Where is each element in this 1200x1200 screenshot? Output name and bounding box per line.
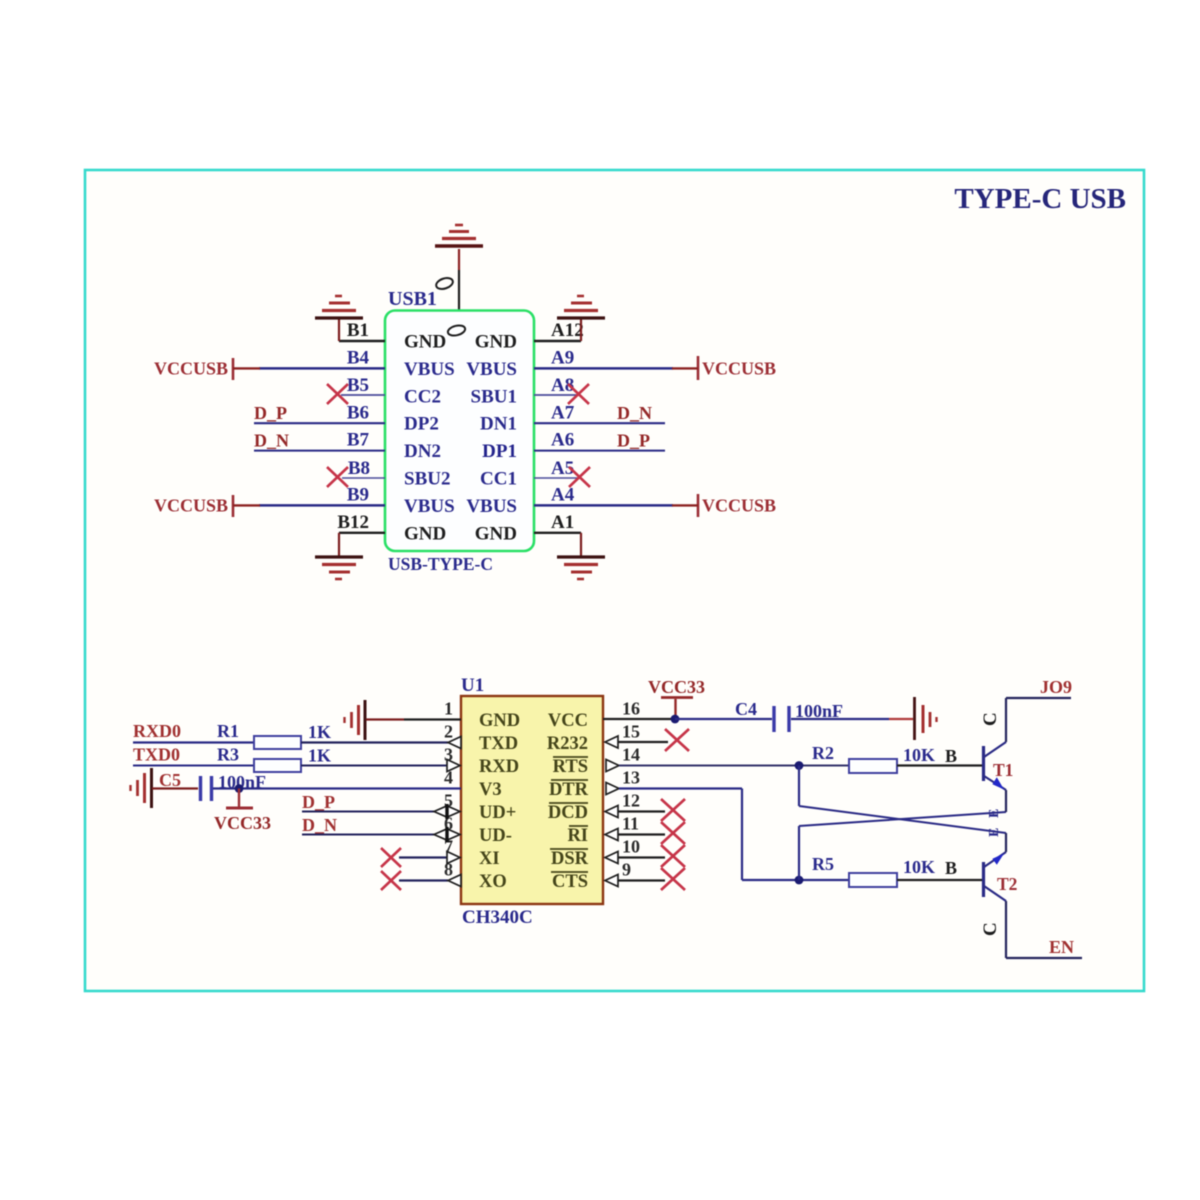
- svg-text:V3: V3: [479, 780, 502, 800]
- pin 3 arrow (input): [447, 760, 460, 772]
- wire pin B1 (GND): [339, 340, 385, 342]
- no-connect X (B5): [327, 384, 348, 404]
- ground (top, above USB1): [435, 225, 483, 310]
- svg-text:VBUS: VBUS: [404, 496, 455, 517]
- pin number A12: [551, 320, 584, 341]
- pin number B1: [347, 320, 369, 341]
- svg-text:TYPE-C USB: TYPE-C USB: [954, 183, 1126, 215]
- net label RXD0: [133, 721, 181, 741]
- wire ground to C5: [152, 787, 198, 789]
- wire TXD0 to R3: [133, 765, 254, 767]
- pin 2 arrow (output): [448, 737, 461, 749]
- svg-text:E: E: [987, 828, 1002, 837]
- svg-text:TXD: TXD: [479, 734, 518, 754]
- no-connect X (pin 10): [661, 845, 685, 867]
- power port VCCUSB (left lower): [154, 495, 260, 517]
- svg-text:GND: GND: [404, 523, 446, 544]
- svg-text:D_P: D_P: [254, 403, 287, 423]
- svg-text:DP1: DP1: [482, 441, 517, 462]
- pin number A7: [551, 402, 575, 423]
- pin number B9: [347, 484, 369, 505]
- wire R1 to pin 2: [301, 741, 448, 743]
- wire pin A1 (GND): [534, 532, 581, 534]
- wire pin B4 (VBUS): [259, 367, 385, 370]
- svg-text:VCCUSB: VCCUSB: [702, 496, 776, 516]
- svg-text:XO: XO: [479, 872, 507, 892]
- svg-text:VBUS: VBUS: [466, 359, 517, 380]
- wire junction to C4: [675, 718, 772, 720]
- no-connect X (pin 12): [661, 799, 685, 821]
- svg-text:14: 14: [622, 745, 640, 765]
- IC U1 right pin numbers 16-9: [622, 699, 640, 880]
- svg-text:A7: A7: [551, 402, 575, 423]
- pin number B12: [337, 512, 369, 533]
- ground (pin B12): [315, 533, 363, 579]
- wire pin B8 stub (SBU2, no connect): [342, 477, 385, 479]
- wire D_P to pin 5 with net label: [302, 792, 447, 812]
- svg-text:RXD0: RXD0: [133, 721, 181, 741]
- svg-text:B: B: [945, 746, 957, 766]
- pin 9 arrow (input): [605, 875, 618, 887]
- svg-text:VBUS: VBUS: [404, 359, 455, 380]
- svg-text:USB-TYPE-C: USB-TYPE-C: [388, 554, 493, 574]
- svg-text:R1: R1: [217, 721, 239, 741]
- svg-text:9: 9: [622, 860, 631, 880]
- svg-text:13: 13: [622, 768, 640, 788]
- svg-text:A4: A4: [551, 484, 575, 505]
- svg-text:B8: B8: [348, 458, 370, 479]
- power port VCC33 (left): [214, 789, 271, 834]
- svg-text:B5: B5: [347, 375, 369, 396]
- no-connect X (pin 7): [381, 848, 401, 867]
- IC U1 left pin numbers 1-8: [444, 699, 453, 880]
- svg-text:A9: A9: [551, 348, 574, 369]
- svg-text:VCCUSB: VCCUSB: [702, 359, 776, 379]
- wire pin B6 (DP2) with net label D_P: [254, 403, 385, 423]
- svg-text:TXD0: TXD0: [133, 745, 180, 765]
- wire pin 8 XO stub: [399, 879, 448, 881]
- wire pin A4 (VBUS): [534, 504, 673, 507]
- pin number B8: [348, 458, 370, 479]
- svg-text:CTS: CTS: [552, 872, 588, 892]
- pin 6 arrow (bidirectional): [434, 827, 460, 842]
- junction node (C5 / VCC33 / V3): [235, 784, 244, 793]
- shell pin circle (top): [435, 276, 454, 291]
- no-connect X (B8): [327, 467, 348, 487]
- wire crossover DTR to T1 emitter: [799, 812, 1006, 880]
- pin 14 arrow (output): [606, 760, 619, 772]
- svg-text:SBU1: SBU1: [471, 386, 517, 407]
- resistor R3: [217, 745, 331, 773]
- svg-text:DCD: DCD: [548, 803, 588, 823]
- wire pin 15 stub: [618, 741, 668, 743]
- pin number B5: [347, 375, 369, 396]
- svg-text:A6: A6: [551, 430, 574, 451]
- pin 15 arrow (input): [605, 736, 618, 748]
- svg-text:15: 15: [622, 722, 640, 742]
- svg-text:1K: 1K: [308, 722, 331, 742]
- wire pin A6 (DP1) with net label D_P: [534, 430, 665, 450]
- svg-text:B6: B6: [347, 402, 369, 423]
- svg-text:B7: B7: [347, 430, 370, 451]
- svg-text:VCC33: VCC33: [214, 813, 271, 833]
- svg-text:UD+: UD+: [479, 803, 516, 823]
- junction node (DTR / crossover): [795, 876, 804, 885]
- capacitor C4: [735, 699, 843, 732]
- svg-text:CC1: CC1: [480, 469, 517, 490]
- svg-text:B: B: [945, 858, 957, 878]
- no-connect X (pin 11): [661, 822, 685, 844]
- wire pin A5 stub (CC1, no connect): [534, 477, 578, 479]
- wire crossover RTS to T2 emitter: [799, 766, 1006, 834]
- svg-text:D_P: D_P: [617, 430, 650, 450]
- svg-text:D_N: D_N: [254, 430, 289, 450]
- pin 8 arrow (output): [448, 875, 461, 887]
- wire / net label JO9: [1006, 677, 1072, 698]
- svg-text:B9: B9: [347, 484, 369, 505]
- power port VCC33 (right): [648, 677, 705, 717]
- wire pin 16 VCC: [603, 718, 675, 720]
- svg-text:A1: A1: [551, 512, 574, 533]
- pin label C (T1 collector, rotated): [980, 712, 1001, 726]
- transistor T1 (NPN): [984, 698, 1014, 812]
- ground (pin A12, inverted): [557, 296, 605, 341]
- pin label E (T1 emitter, rotated): [987, 809, 1002, 818]
- no-connect X (pin 8): [381, 871, 401, 890]
- pin 12 arrow (input): [605, 806, 618, 818]
- resistor R5: [812, 854, 957, 887]
- svg-text:D_N: D_N: [617, 403, 652, 423]
- svg-text:10K: 10K: [903, 745, 935, 765]
- pin number A1: [551, 512, 574, 533]
- svg-text:R2: R2: [812, 743, 834, 763]
- svg-text:C: C: [980, 712, 1001, 726]
- pin number A6: [551, 430, 574, 451]
- svg-text:RTS: RTS: [553, 757, 588, 777]
- svg-text:VCCUSB: VCCUSB: [154, 496, 228, 516]
- pin names left column: [404, 332, 455, 545]
- pin 7 arrow (input): [447, 852, 460, 864]
- wire pin 13 DTR to R5: [619, 789, 849, 881]
- svg-text:1K: 1K: [308, 746, 331, 766]
- no-connect X (A8): [568, 384, 589, 404]
- IC U1 right pin names: [547, 711, 589, 892]
- wire pin B9 (VBUS): [259, 504, 385, 507]
- wire R5 to T2 base: [897, 879, 982, 881]
- svg-text:VCC: VCC: [548, 711, 588, 731]
- sheet border frame: [85, 170, 1144, 991]
- svg-text:B1: B1: [347, 320, 369, 341]
- transistor T2 (NPN): [984, 833, 1018, 958]
- title TYPE-C USB: [954, 183, 1126, 215]
- svg-text:16: 16: [622, 699, 640, 719]
- pin number A9: [551, 348, 574, 369]
- svg-text:R5: R5: [812, 854, 834, 874]
- pin number B4: [347, 348, 370, 369]
- capacitor C5: [159, 770, 266, 801]
- svg-text:B12: B12: [337, 512, 369, 533]
- pin names right column: [466, 332, 517, 545]
- no-connect X (pin 9): [661, 868, 685, 890]
- wire pin A7 (DN1) with net label D_N: [534, 403, 665, 423]
- wire pin B7 (DN2) with net label D_N: [254, 430, 385, 450]
- svg-text:C4: C4: [735, 699, 757, 719]
- svg-text:UD-: UD-: [479, 826, 512, 846]
- svg-text:JO9: JO9: [1040, 677, 1072, 697]
- connector USB1 designator: [388, 288, 437, 310]
- svg-text:E: E: [987, 809, 1002, 818]
- wire pin A8 stub (SBU1, no connect): [534, 394, 578, 396]
- svg-text:T2: T2: [997, 874, 1017, 894]
- pin number B7: [347, 430, 370, 451]
- wire R2 to T1 base: [897, 764, 982, 766]
- no-connect X (pin 15): [665, 729, 689, 751]
- svg-text:D_N: D_N: [302, 815, 337, 835]
- wire pin A9 (VBUS): [534, 367, 673, 370]
- svg-text:GND: GND: [475, 523, 517, 544]
- svg-text:VBUS: VBUS: [466, 496, 517, 517]
- svg-text:A12: A12: [551, 320, 584, 341]
- svg-text:GND: GND: [479, 711, 520, 731]
- wire pin A12 (GND): [534, 340, 581, 342]
- ground (pin A1): [557, 533, 605, 579]
- svg-text:B4: B4: [347, 348, 370, 369]
- pin label C (T2 collector, rotated): [980, 922, 1001, 936]
- svg-text:DTR: DTR: [549, 780, 589, 800]
- wire pin 7 XI stub: [399, 856, 447, 858]
- wire pin B5 stub (CC2, no connect): [341, 394, 385, 396]
- ground (sideways, C4): [915, 697, 937, 740]
- junction node (RTS / crossover): [795, 761, 804, 770]
- power port VCCUSB (right lower): [672, 494, 776, 517]
- ground (pin B1, inverted): [315, 296, 363, 341]
- svg-text:USB1: USB1: [388, 288, 437, 310]
- pin number B6: [347, 402, 369, 423]
- svg-text:CH340C: CH340C: [462, 907, 533, 928]
- IC label CH340C: [462, 907, 533, 928]
- pin 11 arrow (input): [605, 829, 618, 841]
- shell pin circle (inside top): [447, 324, 466, 337]
- wire pin 9 stub: [618, 879, 665, 881]
- wire pin 10 stub: [618, 856, 665, 858]
- svg-text:12: 12: [622, 791, 640, 811]
- connector USB1 body (USB-TYPE-C): [385, 311, 534, 552]
- wire R3 to pin 3: [301, 765, 447, 767]
- wire / net label EN: [1006, 937, 1082, 958]
- svg-text:U1: U1: [461, 675, 484, 696]
- svg-text:EN: EN: [1049, 937, 1074, 957]
- svg-text:SBU2: SBU2: [404, 469, 450, 490]
- wire pin 12 stub: [618, 810, 665, 812]
- wire pin B12 (GND): [339, 532, 385, 534]
- ground (sideways, pin 1): [345, 700, 366, 740]
- IC U1 left pin names: [479, 711, 520, 892]
- svg-text:DN1: DN1: [480, 414, 517, 435]
- wire C4 to ground: [791, 718, 913, 720]
- svg-text:GND: GND: [404, 332, 446, 353]
- wire C5 to pin 4 V3: [213, 787, 461, 789]
- svg-text:RI: RI: [567, 826, 588, 846]
- pin 13 arrow (output): [606, 783, 619, 795]
- no-connect X (A5): [569, 467, 590, 487]
- pin 5 arrow (bidirectional): [434, 804, 460, 819]
- ground (sideways, C5): [131, 768, 152, 808]
- net label TXD0: [133, 745, 180, 765]
- svg-text:RXD: RXD: [479, 757, 519, 777]
- svg-text:CC2: CC2: [404, 386, 441, 407]
- svg-text:10: 10: [622, 837, 640, 857]
- svg-text:DP2: DP2: [404, 414, 439, 435]
- svg-text:11: 11: [622, 814, 639, 834]
- svg-text:C: C: [980, 922, 1001, 936]
- svg-text:D_P: D_P: [302, 792, 335, 812]
- wire pin 14 RTS to R2: [619, 765, 849, 767]
- wire D_N to pin 6 with net label: [302, 815, 447, 835]
- svg-text:VCC33: VCC33: [648, 677, 705, 697]
- pin label E (T2 emitter, rotated): [987, 828, 1002, 837]
- svg-text:R3: R3: [217, 745, 239, 765]
- IC U1 body CH340C: [461, 696, 603, 904]
- junction node (VCC / C4): [671, 715, 680, 724]
- svg-text:GND: GND: [475, 332, 517, 353]
- svg-text:DSR: DSR: [551, 849, 589, 869]
- pin 10 arrow (input): [605, 852, 618, 864]
- IC U1 designator: [461, 675, 484, 696]
- pin number A8: [551, 375, 574, 396]
- overlines for active-low pins: [549, 757, 588, 872]
- resistor R2: [812, 743, 957, 773]
- pin number A4: [551, 484, 575, 505]
- label USB-TYPE-C: [388, 554, 493, 574]
- svg-text:XI: XI: [479, 849, 500, 869]
- svg-text:R232: R232: [547, 734, 588, 754]
- power port VCCUSB (left upper): [154, 358, 260, 380]
- svg-text:1: 1: [444, 699, 453, 719]
- svg-text:T1: T1: [993, 760, 1013, 780]
- wire pin 1 GND: [366, 718, 461, 720]
- wire pin 11 stub: [618, 833, 665, 835]
- svg-text:2: 2: [444, 722, 453, 742]
- svg-text:DN2: DN2: [404, 441, 441, 462]
- power port VCCUSB (right upper): [672, 356, 776, 380]
- svg-text:VCCUSB: VCCUSB: [154, 359, 228, 379]
- resistor R1: [217, 721, 331, 749]
- wire RXD0 to R1: [133, 741, 254, 743]
- svg-text:C5: C5: [159, 770, 181, 790]
- svg-text:10K: 10K: [903, 857, 935, 877]
- pin number A5: [551, 458, 574, 479]
